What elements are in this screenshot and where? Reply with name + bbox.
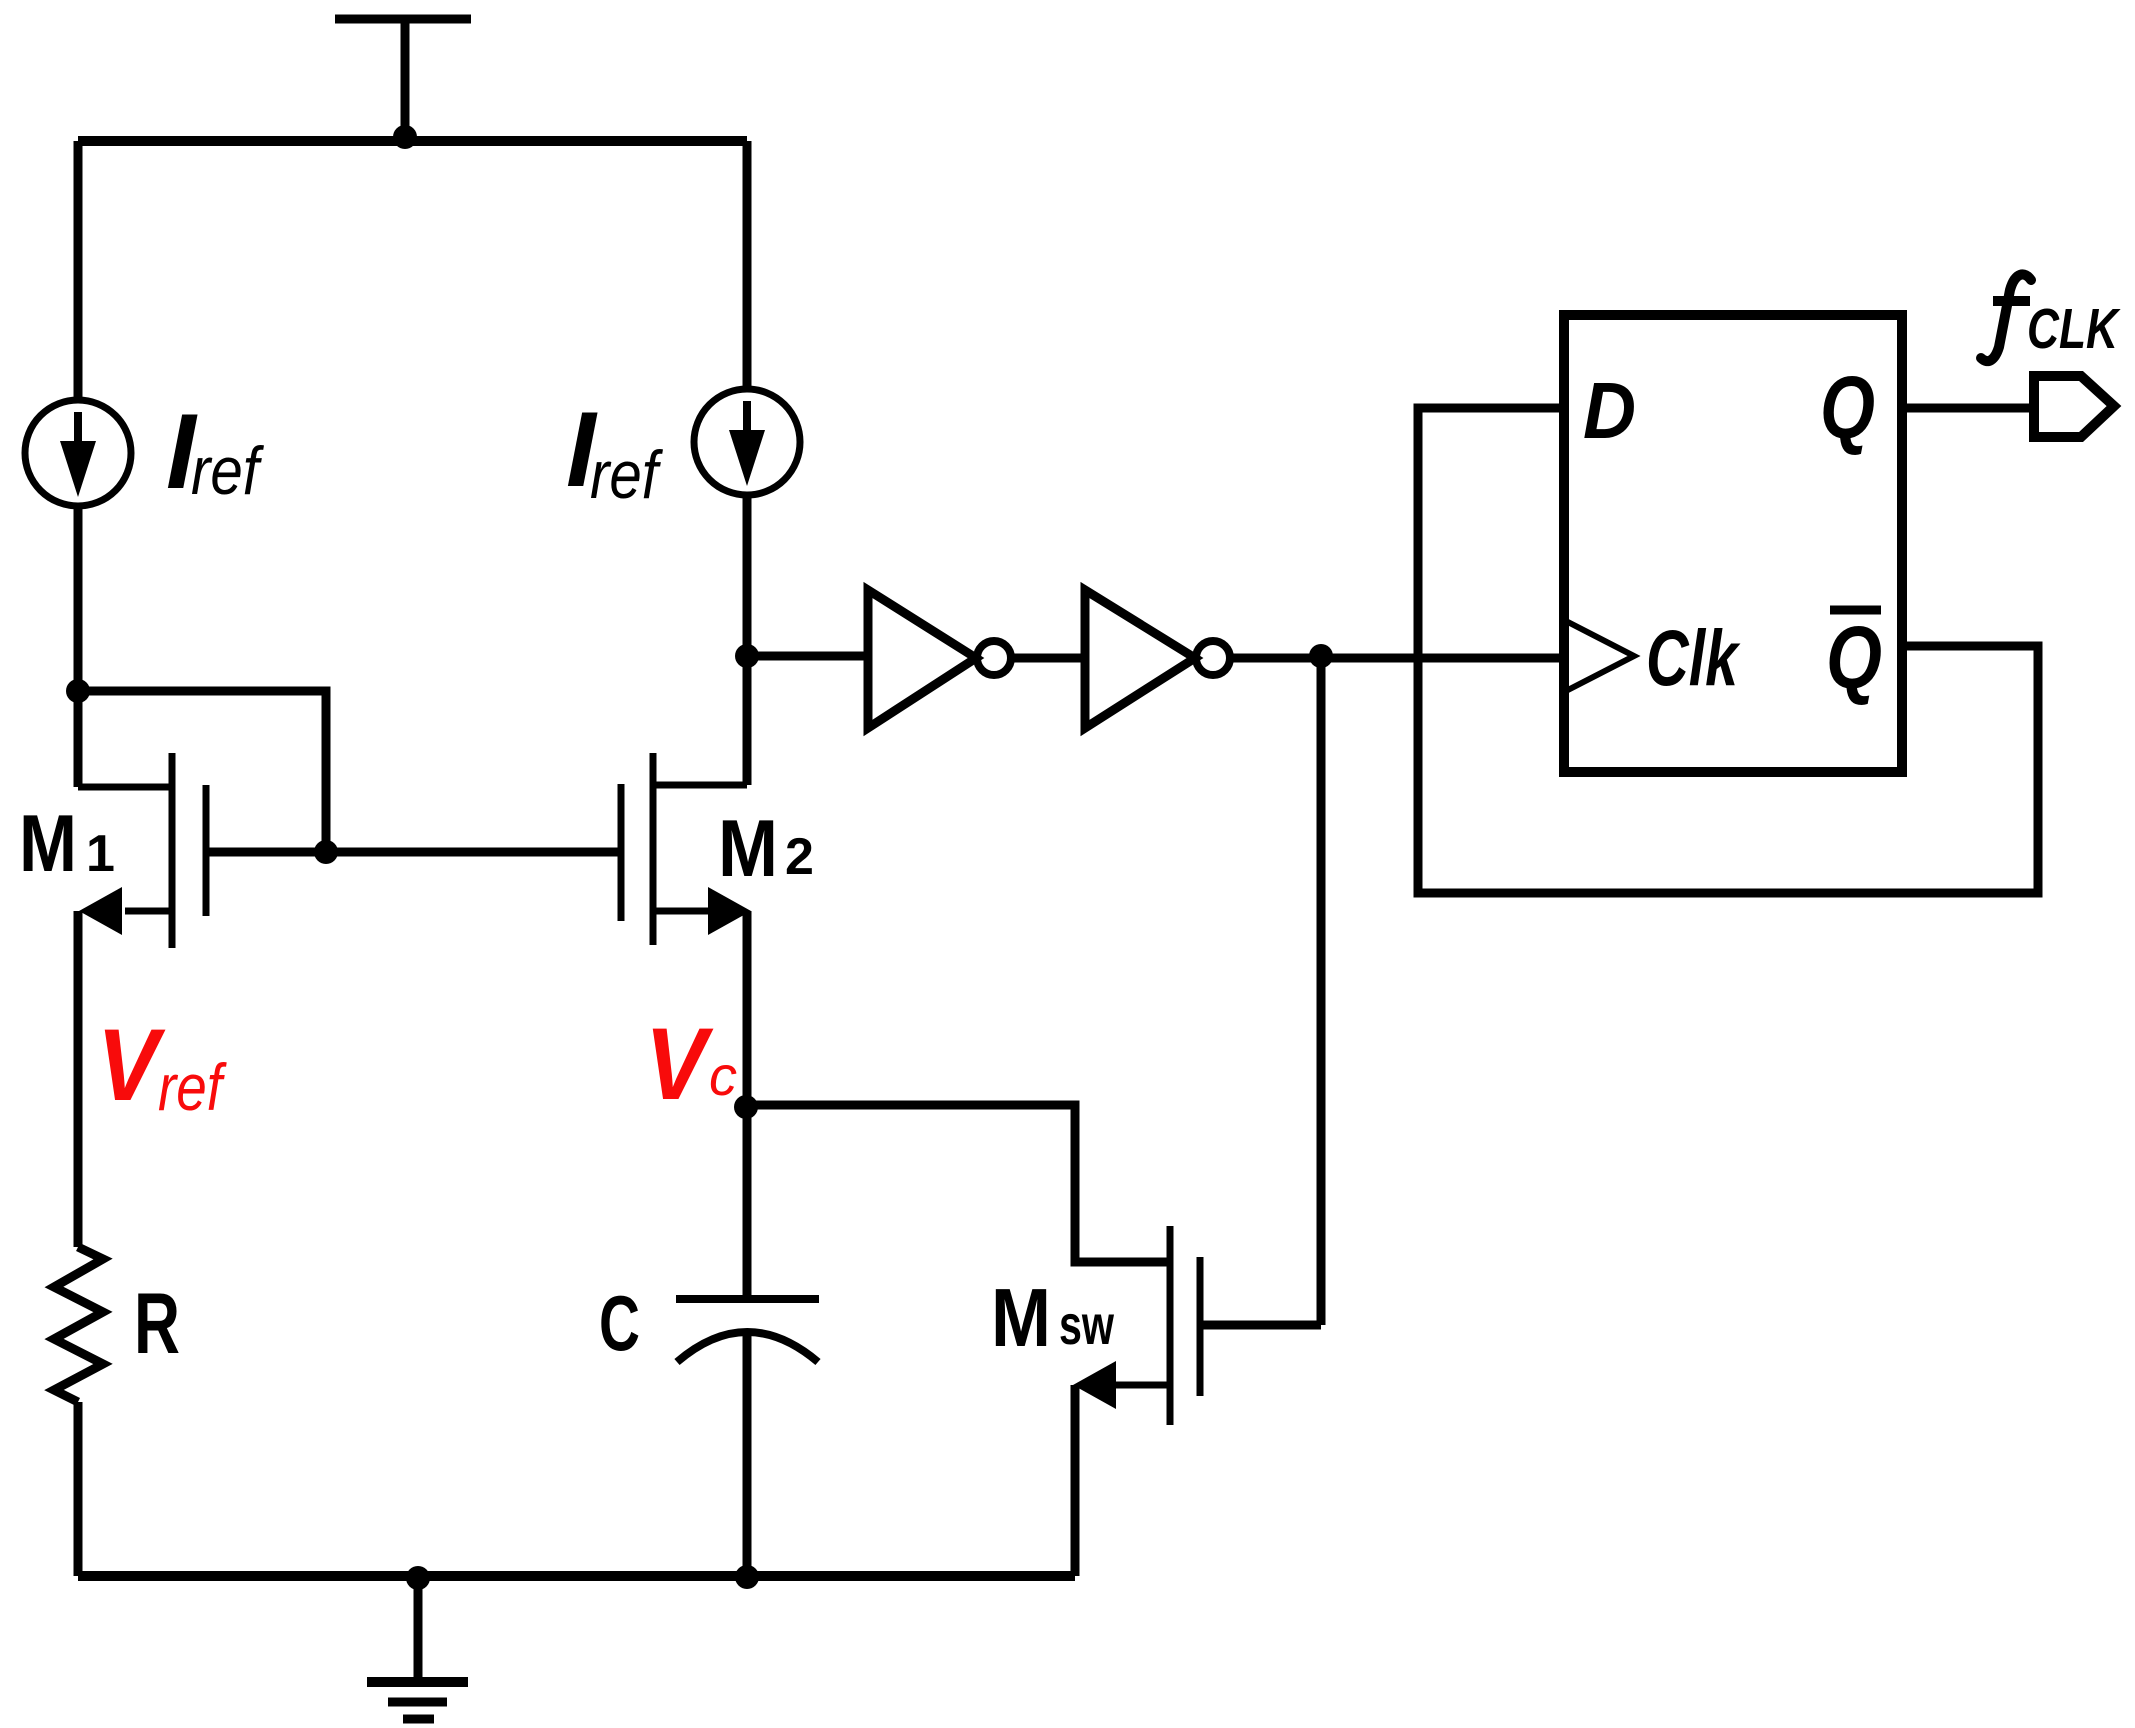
svg-text:ref: ref (191, 433, 264, 509)
svg-text:ref: ref (158, 1050, 228, 1124)
svg-text:Q: Q (1826, 608, 1882, 707)
svg-text:M: M (991, 1271, 1051, 1364)
svg-text:Clk: Clk (1646, 613, 1741, 702)
svg-text:R: R (134, 1276, 180, 1372)
svg-text:sw: sw (1059, 1293, 1114, 1356)
svg-text:V: V (645, 1007, 714, 1121)
svg-text:M: M (19, 799, 77, 889)
svg-text:CLK: CLK (2027, 297, 2121, 361)
svg-text:1: 1 (86, 825, 115, 883)
svg-text:D: D (1583, 366, 1636, 455)
svg-text:C: C (599, 1279, 640, 1367)
svg-text:V: V (97, 1008, 166, 1122)
svg-text:M: M (718, 804, 778, 894)
svg-text:ref: ref (590, 437, 663, 513)
svg-text:Q: Q (1820, 358, 1875, 457)
svg-text:2: 2 (785, 828, 814, 886)
svg-text:c: c (709, 1044, 737, 1107)
